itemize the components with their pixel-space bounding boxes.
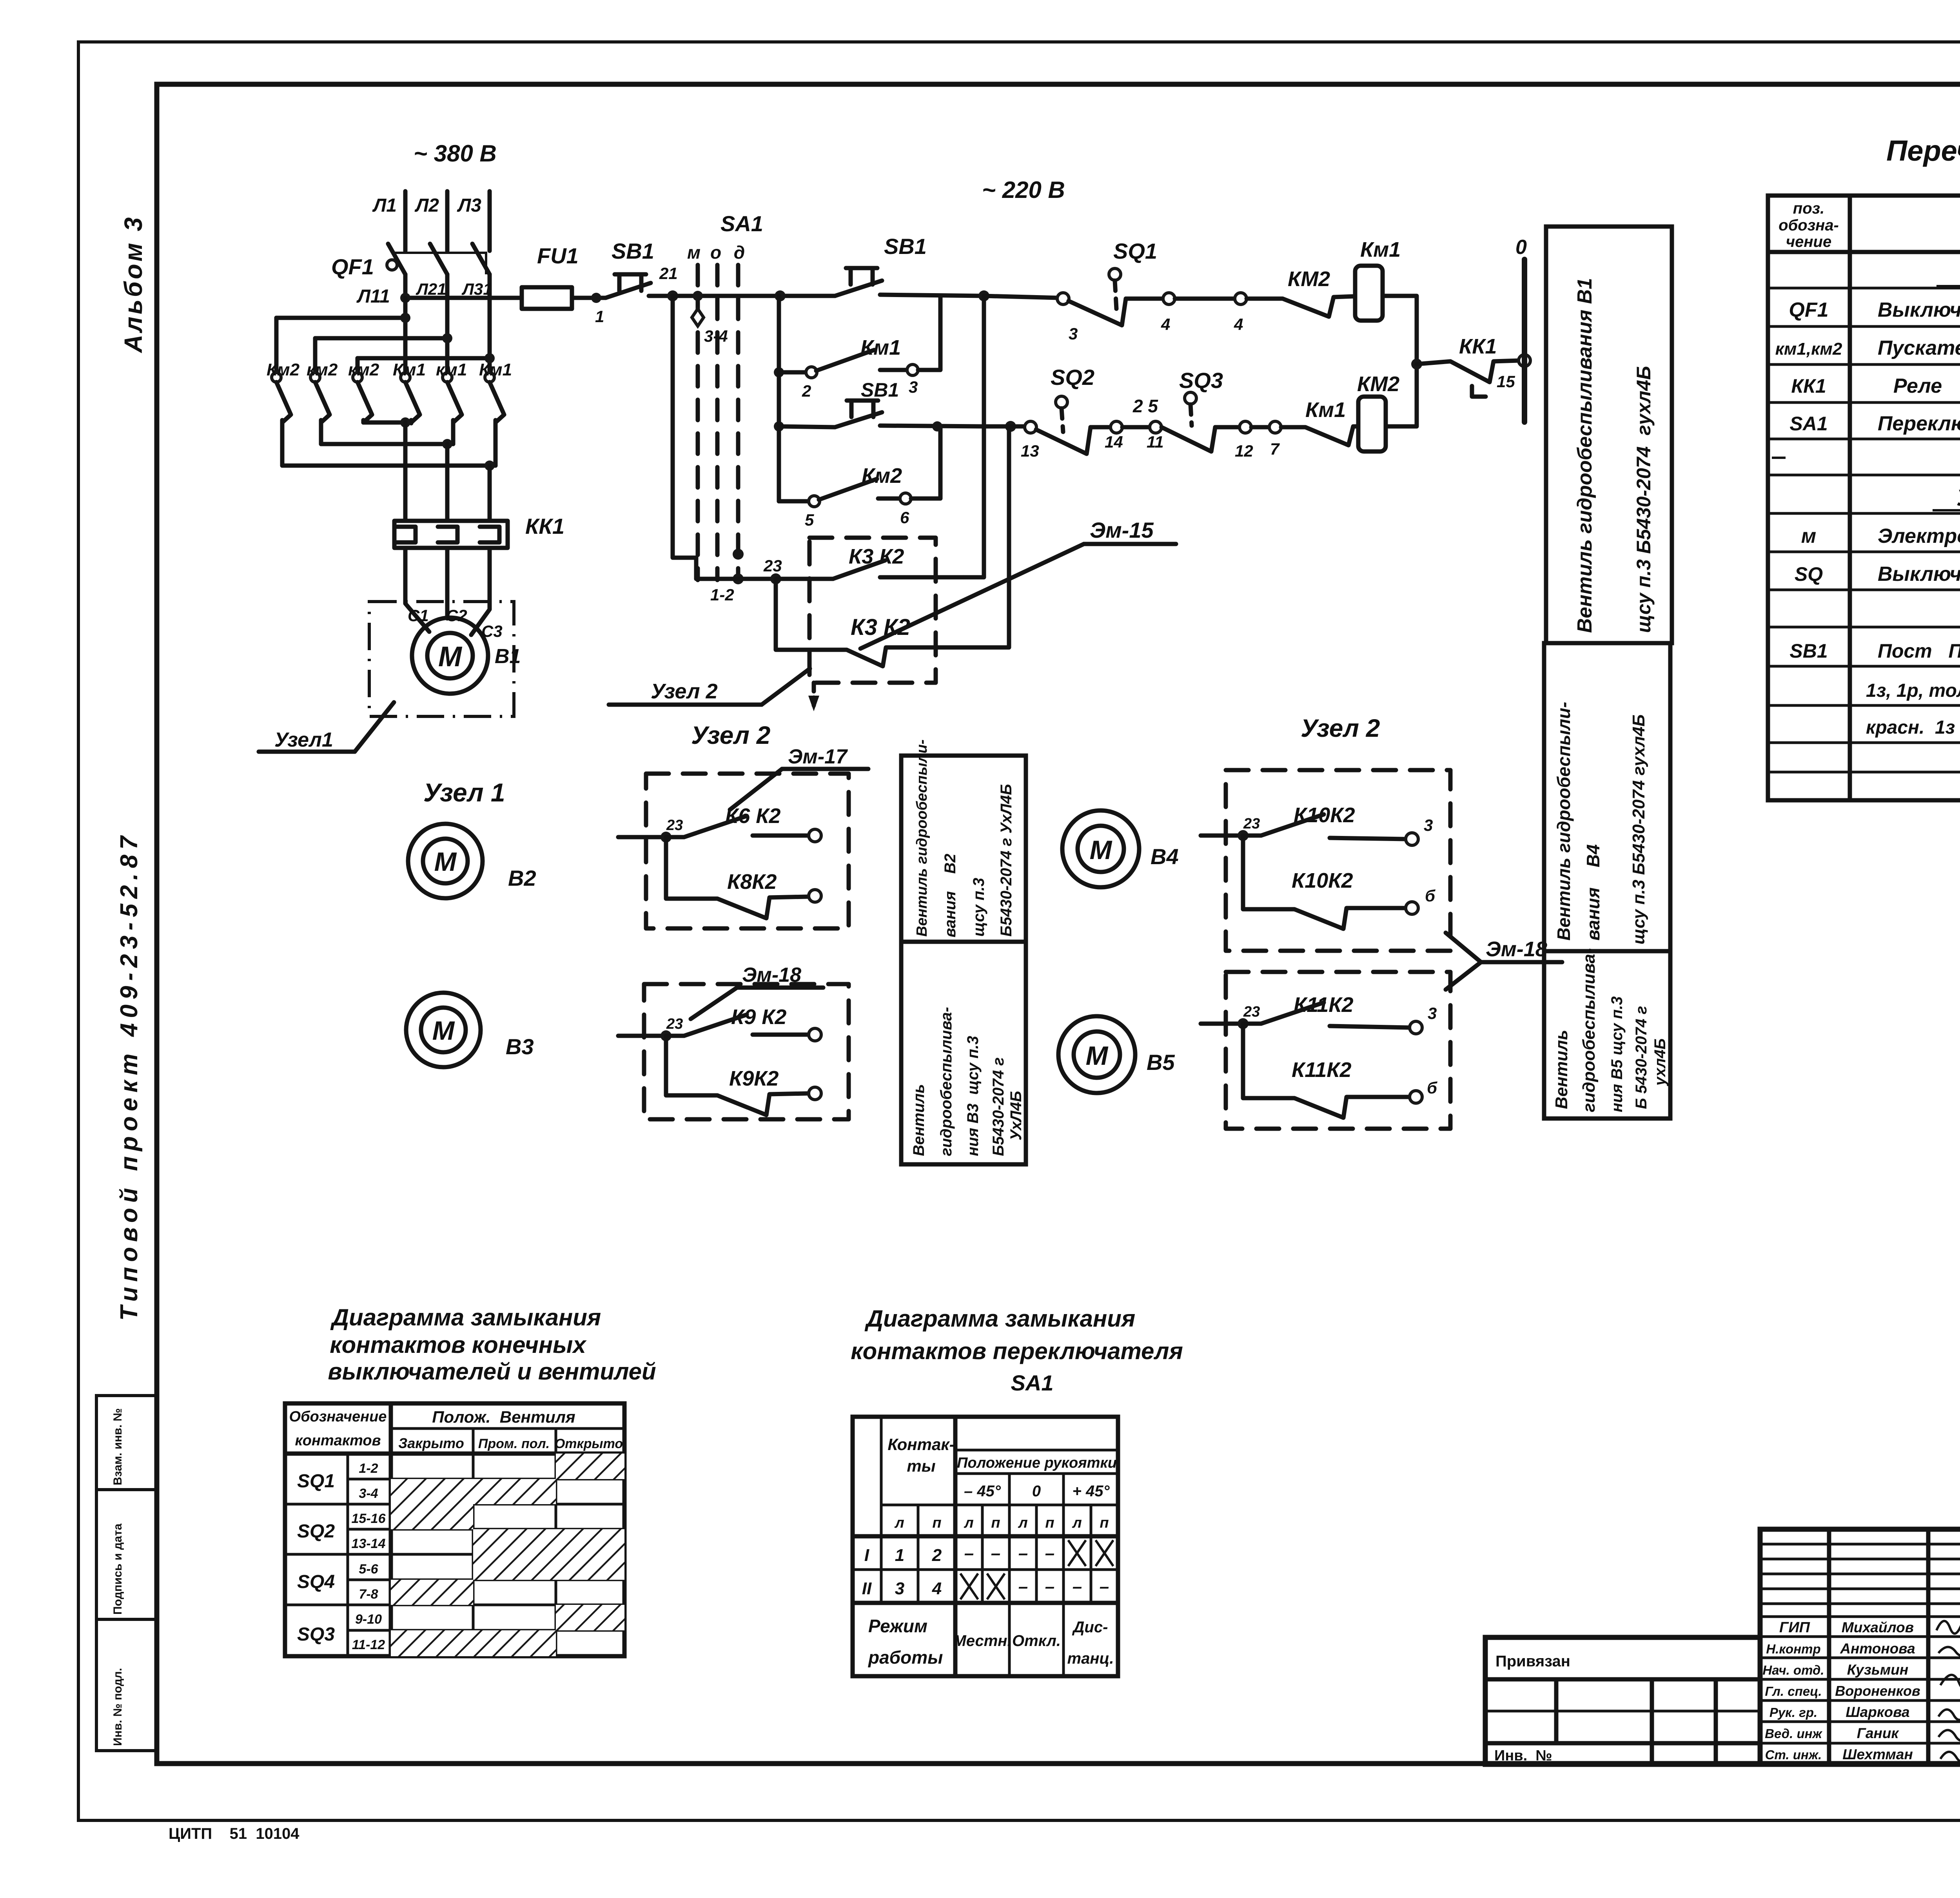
svg-text:SQ3: SQ3 <box>297 1624 335 1645</box>
row: panel heading <box>1936 261 1960 286</box>
svg-text:п: п <box>991 1515 1000 1531</box>
svg-text:QF1: QF1 <box>331 254 374 279</box>
lower jumper B <box>321 439 453 519</box>
svg-text:Л3: Л3 <box>457 195 481 216</box>
motor B1 <box>408 606 521 694</box>
svg-text:21: 21 <box>659 264 678 283</box>
svg-text:Узел 2: Узел 2 <box>691 721 770 749</box>
svg-text:КМ2: КМ2 <box>1357 372 1399 396</box>
limit switch SQ3 <box>1161 368 1281 460</box>
contact K3K2 (NC chevron) <box>776 426 1009 666</box>
valve B5 text box <box>1544 948 1670 1118</box>
svg-text:1-2: 1-2 <box>359 1461 378 1476</box>
svg-text:д: д <box>734 242 745 263</box>
svg-text:23: 23 <box>763 557 782 575</box>
empty row dash <box>1772 457 1786 459</box>
left margin stamp boxes <box>96 1396 157 1751</box>
svg-text:3-4: 3-4 <box>359 1486 378 1501</box>
svg-text:м: м <box>687 242 701 263</box>
contact K11K2 (NC) <box>1243 1024 1437 1118</box>
row SQ <box>1795 563 1960 586</box>
crossbar jumper B <box>315 333 452 372</box>
svg-text:Диаграмма замыкания: Диаграмма замыкания <box>330 1304 601 1331</box>
contact K10K2 (NO) <box>1201 803 1433 845</box>
svg-text:Кузьмин: Кузьмин <box>1847 1662 1908 1678</box>
svg-text:7-8: 7-8 <box>359 1587 378 1602</box>
svg-text:Антонова: Антонова <box>1840 1641 1915 1657</box>
svg-text:К11К2: К11К2 <box>1292 1058 1351 1082</box>
title block signatures column texts <box>1762 1619 1920 1762</box>
fuse FU1 <box>522 243 579 309</box>
svg-text:ния В3 щсу п.3: ния В3 щсу п.3 <box>964 1036 982 1156</box>
svg-text:КК1: КК1 <box>1791 375 1826 397</box>
svg-text:Б5430-2074 г УхЛ4Б: Б5430-2074 г УхЛ4Б <box>998 784 1015 937</box>
diagram table 1 grid <box>285 1403 624 1656</box>
svg-text:11: 11 <box>1147 433 1164 451</box>
svg-text:С3: С3 <box>481 622 503 640</box>
svg-text:Пост ПКЕ 222-3У2 толк. вер: Пост ПКЕ 222-3У2 толк. верхний <box>1878 640 1960 662</box>
crossbar jumper A <box>276 313 410 372</box>
wires KK1 to motor <box>405 548 490 635</box>
svg-text:Перечень элементов: Перечень элементов <box>1886 134 1960 167</box>
svg-text:Вентиль гидрообеспыливания В: Вентиль гидрообеспыливания В1 <box>1573 278 1596 633</box>
svg-text:Км1: Км1 <box>860 336 901 359</box>
svg-text:Привязан: Привязан <box>1495 1653 1570 1670</box>
svg-text:SQ2: SQ2 <box>1051 365 1094 390</box>
CONTROL-CIRCUIT <box>609 177 1672 711</box>
limit switch SQ2 <box>1021 365 1164 460</box>
pushbutton SB1 (start fwd) <box>835 234 984 296</box>
svg-text:–: – <box>1045 1577 1054 1596</box>
svg-text:SQ2: SQ2 <box>297 1521 335 1542</box>
phase line L3 <box>457 191 490 251</box>
svg-text:б: б <box>1427 1079 1437 1097</box>
thermal relay KK1 heaters <box>394 514 564 548</box>
svg-text:3: 3 <box>895 1579 904 1598</box>
svg-text:В1: В1 <box>495 645 521 668</box>
svg-text:В5: В5 <box>1147 1050 1175 1075</box>
diagram table 1 hatched cells <box>391 1454 624 1656</box>
svg-text:15: 15 <box>1497 372 1515 391</box>
svg-text:SB1: SB1 <box>612 239 654 263</box>
svg-text:Реле: Реле <box>1893 375 1942 397</box>
svg-text:Км1: Км1 <box>393 360 426 379</box>
row SA1 <box>1789 412 1960 435</box>
svg-text:л: л <box>894 1515 904 1531</box>
svg-text:1з, 1р, толк. средний, 1з, 1р,: 1з, 1р, толк. средний, 1з, 1р, толк. ниж… <box>1866 680 1960 701</box>
crossbar jumper C <box>358 353 495 372</box>
svg-text:11-12: 11-12 <box>352 1637 385 1652</box>
svg-text:КМ2: КМ2 <box>1288 267 1330 291</box>
svg-text:Км2: Км2 <box>267 360 300 379</box>
svg-text:ухл4Б: ухл4Б <box>1651 1039 1669 1086</box>
svg-text:обозна-: обозна- <box>1779 217 1839 234</box>
svg-text:Дис-: Дис- <box>1072 1619 1108 1636</box>
contactor contact KM1 phase c <box>479 360 512 466</box>
uzel 2 dashed box B <box>644 984 849 1119</box>
svg-text:Открыто: Открыто <box>555 1436 623 1451</box>
wire fuse to SB1 <box>572 293 606 326</box>
svg-text:Электродвигатель: Электродвигатель <box>1878 525 1960 547</box>
svg-text:SQ: SQ <box>1795 563 1823 585</box>
auxiliary contact KM2 (seal-in) <box>779 426 940 529</box>
contactor interlock contact KM2 (upper rail) <box>1247 267 1355 317</box>
svg-text:Режим: Режим <box>868 1616 927 1636</box>
svg-text:1: 1 <box>595 307 604 326</box>
svg-text:К6 К2: К6 К2 <box>725 804 780 828</box>
svg-text:К8К2: К8К2 <box>727 870 777 894</box>
svg-text:Км1: Км1 <box>1360 238 1401 261</box>
svg-text:23: 23 <box>1243 1004 1260 1020</box>
svg-text:Ст. инж.: Ст. инж. <box>1765 1748 1822 1762</box>
node 23 row wire <box>738 557 782 584</box>
svg-text:гидрообеспылива-: гидрообеспылива- <box>1579 948 1599 1112</box>
uzel 2 dashed box D <box>1226 972 1450 1129</box>
row KK1 <box>1791 375 1960 397</box>
svg-text:4: 4 <box>932 1579 942 1598</box>
wire bus to fuse <box>400 293 522 303</box>
svg-text:ЦИТП 51 10104: ЦИТП 51 10104 <box>169 1825 299 1842</box>
svg-text:п: п <box>1045 1515 1054 1531</box>
svg-text:SQ3: SQ3 <box>1179 368 1223 393</box>
neutral line 0 <box>1515 236 1527 422</box>
svg-text:чение: чение <box>1786 233 1831 250</box>
svg-text:Вентиль: Вентиль <box>1552 1030 1571 1109</box>
svg-text:Н.контр: Н.контр <box>1766 1642 1820 1656</box>
contact K10K2 (NC) <box>1243 836 1436 929</box>
svg-text:5: 5 <box>805 511 814 529</box>
svg-text:Вентиль гидрообеспыли-: Вентиль гидрообеспыли- <box>1553 702 1574 941</box>
svg-text:С1: С1 <box>408 606 429 625</box>
svg-text:Ганик: Ганик <box>1857 1725 1900 1741</box>
motor B5 <box>1058 1016 1175 1093</box>
svg-text:FU1: FU1 <box>537 243 579 268</box>
svg-text:К10К2: К10К2 <box>1292 869 1353 892</box>
element list table grid <box>1768 196 1960 800</box>
contact K9K2 (NO) <box>618 1005 821 1041</box>
valve B4 text box <box>1544 643 1670 951</box>
svg-text:вания В4: вания В4 <box>1583 844 1603 941</box>
svg-text:поз.: поз. <box>1793 200 1824 217</box>
svg-text:В2: В2 <box>508 866 536 890</box>
svg-text:Контак-: Контак- <box>887 1435 955 1454</box>
svg-text:Альбом 3: Альбом 3 <box>119 215 147 353</box>
svg-text:УхЛ4Б: УхЛ4Б <box>1007 1091 1025 1140</box>
contact 1-2 marker on SA1 <box>710 549 744 604</box>
svg-text:щсу п.3 Б5430-2074 гухл4Б: щсу п.3 Б5430-2074 гухл4Б <box>1629 714 1648 944</box>
svg-text:SА1: SА1 <box>1789 413 1828 435</box>
svg-text:SQ4: SQ4 <box>297 1572 335 1592</box>
svg-text:4: 4 <box>1161 315 1170 334</box>
svg-text:12: 12 <box>1235 442 1253 460</box>
svg-text:Пускатель: Пускатель <box>1878 337 1960 359</box>
phase line L2 <box>414 191 447 251</box>
svg-text:23: 23 <box>1243 816 1260 832</box>
leader label EM-17 <box>730 745 868 810</box>
svg-text:контактов: контактов <box>295 1432 381 1449</box>
uzel 2 dashed box C <box>1226 770 1450 951</box>
element list header <box>1779 200 1960 250</box>
svg-text:л: л <box>964 1515 974 1531</box>
motor B3 <box>406 993 534 1067</box>
svg-text:М: М <box>434 847 457 877</box>
svg-text:SА1: SА1 <box>1011 1370 1054 1395</box>
svg-text:–: – <box>1073 1577 1082 1596</box>
svg-text:23: 23 <box>666 1016 683 1032</box>
svg-text:SQ1: SQ1 <box>1113 239 1157 263</box>
lower jumper C <box>282 460 495 519</box>
leader label EM-18 (left) <box>691 964 823 1019</box>
svg-text:–: – <box>964 1544 974 1563</box>
svg-text:Вентиль гидрообеспыли-: Вентиль гидрообеспыли- <box>914 740 930 937</box>
auxiliary contact KM1 (seal-in) <box>779 296 940 400</box>
diagram table 2 title <box>851 1305 1183 1395</box>
svg-text:п: п <box>932 1515 941 1531</box>
svg-text:работы: работы <box>867 1647 943 1668</box>
contact 3-4 marker on SA1 <box>692 291 728 345</box>
uzel 2 dashed box (control) <box>809 538 936 683</box>
diagram table 1 title <box>328 1304 656 1385</box>
pushbutton SB1 (main) <box>606 239 673 298</box>
contactor contact KM2 phase a <box>267 360 300 466</box>
svg-text:Выключатель конечный: Выключатель конечный <box>1878 563 1960 586</box>
svg-text:Типовой проект 409-23-52.87: Типовой проект 409-23-52.87 <box>116 831 143 1321</box>
svg-text:Л21: Л21 <box>416 280 446 298</box>
svg-text:Узел1: Узел1 <box>274 729 333 751</box>
svg-text:выключателей и вентилей: выключателей и вентилей <box>328 1358 656 1385</box>
title block grid <box>1760 1529 1960 1764</box>
svg-text:л: л <box>1018 1515 1028 1531</box>
wire coil KM2 to junction <box>1386 364 1417 426</box>
svg-text:Откл.: Откл. <box>1012 1632 1061 1650</box>
diagram table 2 grid <box>853 1417 1118 1676</box>
TITLE-BLOCK <box>1485 1529 1960 1765</box>
svg-text:У механизма: У механизма <box>1956 485 1960 511</box>
svg-text:Переключатель ПКУ3-16с-0102У: Переключатель ПКУ3-16с-0102У3 <box>1878 412 1960 435</box>
svg-text:КК1: КК1 <box>1459 335 1497 358</box>
phase verticals to contacts <box>405 298 490 373</box>
svg-text:–: – <box>991 1544 1000 1563</box>
svg-text:2: 2 <box>932 1546 942 1565</box>
svg-text:В4: В4 <box>1151 844 1179 869</box>
svg-text:SQ1: SQ1 <box>297 1471 335 1492</box>
svg-text:Подпись и дата: Подпись и дата <box>111 1523 124 1615</box>
svg-text:Инв. №: Инв. № <box>1494 1748 1552 1764</box>
contactor interlock contact KM1 (lower rail) <box>1281 398 1358 445</box>
svg-text:км2: км2 <box>348 360 379 379</box>
uzel 1 leader label <box>259 702 394 752</box>
svg-text:I: I <box>864 1546 869 1565</box>
svg-text:Км1: Км1 <box>1305 398 1346 422</box>
svg-text:~ 220 В: ~ 220 В <box>982 177 1065 203</box>
svg-text:танц.: танц. <box>1067 1650 1114 1667</box>
svg-text:23: 23 <box>666 817 683 834</box>
svg-text:б: б <box>1425 886 1436 905</box>
svg-text:Положение рукоятки: Положение рукоятки <box>957 1455 1117 1471</box>
svg-text:щсу п.3 Б5430-2074 гухл4Б: щсу п.3 Б5430-2074 гухл4Б <box>1633 366 1655 633</box>
valve B3 text box <box>901 942 1026 1164</box>
DIAGRAM-TABLES <box>285 1304 1183 1676</box>
valve B2 text box <box>901 740 1026 942</box>
leader label EM-15 <box>860 518 1176 649</box>
svg-text:5-6: 5-6 <box>359 1562 378 1577</box>
svg-text:Инв. № подл.: Инв. № подл. <box>111 1668 124 1746</box>
svg-text:Км1: Км1 <box>479 360 512 379</box>
contact K11K2 (NO) <box>1201 993 1437 1034</box>
svg-text:В3: В3 <box>506 1034 534 1059</box>
wire upper rail to SQ1 <box>978 290 1058 301</box>
svg-text:Узел 1: Узел 1 <box>423 778 505 807</box>
svg-text:SB1: SB1 <box>884 234 927 259</box>
svg-text:вания В2: вания В2 <box>942 854 959 937</box>
svg-text:С2: С2 <box>446 606 467 625</box>
svg-text:– 45°: – 45° <box>964 1483 1001 1500</box>
svg-text:ГИП: ГИП <box>1779 1619 1810 1636</box>
row SB1 <box>1789 640 1960 662</box>
svg-text:Пром. пол.: Пром. пол. <box>478 1436 550 1451</box>
svg-text:м: м <box>1801 525 1816 547</box>
svg-text:Рук. гр.: Рук. гр. <box>1769 1705 1817 1720</box>
svg-text:QF1: QF1 <box>1789 299 1828 321</box>
svg-text:гидрообеспылива-: гидрообеспылива- <box>938 1007 955 1156</box>
svg-text:красн. 1з , 1р: красн. 1з , 1р <box>1866 717 1960 738</box>
svg-text:~ 380 В: ~ 380 В <box>414 140 497 167</box>
svg-text:Узел 2: Узел 2 <box>1301 714 1380 742</box>
svg-text:контактов конечных: контактов конечных <box>330 1332 587 1358</box>
arrow below box <box>808 683 819 711</box>
svg-text:7: 7 <box>1270 440 1280 458</box>
row KM1 KM2 <box>1775 337 1960 359</box>
svg-text:Л2: Л2 <box>414 195 439 216</box>
svg-text:SB1: SB1 <box>861 379 899 401</box>
svg-text:щсу п.3: щсу п.3 <box>970 878 987 937</box>
svg-text:1: 1 <box>895 1546 904 1565</box>
svg-text:Вороненков: Вороненков <box>1835 1683 1920 1699</box>
pushbutton SB1 (start rev) <box>779 379 984 427</box>
svg-text:Полож. Вентиля: Полож. Вентиля <box>432 1408 575 1426</box>
wire upper rail <box>775 290 835 301</box>
svg-text:о: о <box>710 242 721 263</box>
svg-text:км1,км2: км1,км2 <box>1775 339 1842 359</box>
svg-text:ты: ты <box>907 1457 935 1475</box>
svg-text:Эм-17: Эм-17 <box>788 745 848 768</box>
svg-text:Шехтман: Шехтман <box>1842 1746 1913 1762</box>
contact K9K2 (NC) <box>666 1036 821 1115</box>
svg-text:14: 14 <box>1105 433 1123 451</box>
svg-text:–: – <box>1045 1544 1054 1563</box>
svg-text:+ 45°: + 45° <box>1073 1483 1110 1500</box>
svg-text:SB1: SB1 <box>1789 640 1828 662</box>
svg-text:Выключатель: Выключатель <box>1878 299 1960 321</box>
svg-text:3: 3 <box>1069 324 1078 343</box>
uzel 2 dashed box A <box>646 774 849 928</box>
contact K6K2 <box>618 804 821 843</box>
circuit breaker QF1 <box>331 244 490 298</box>
svg-text:Закрыто: Закрыто <box>398 1435 464 1451</box>
svg-text:КК1: КК1 <box>525 514 564 538</box>
limit switch SQ1 <box>1057 239 1247 343</box>
switch SA1 dashed contact lines <box>687 211 763 580</box>
contactor contact KM1 phase b <box>436 360 467 444</box>
lower jumper A <box>363 417 411 519</box>
svg-text:–: – <box>1018 1544 1028 1563</box>
svg-text:2 5: 2 5 <box>1132 396 1158 416</box>
svg-text:2: 2 <box>802 382 811 400</box>
row QF1 <box>1789 299 1960 321</box>
svg-text:3-4: 3-4 <box>704 327 728 345</box>
svg-text:6: 6 <box>900 508 909 527</box>
svg-text:–: – <box>1100 1577 1109 1596</box>
svg-text:3: 3 <box>1428 1004 1437 1022</box>
svg-text:Вентиль: Вентиль <box>910 1084 927 1156</box>
contactor coil KM1 <box>1355 238 1401 321</box>
contactor contact KM2 phase c <box>348 360 379 422</box>
left branch vertical <box>774 296 784 501</box>
svg-text:М: М <box>432 1016 455 1046</box>
svg-text:Узел 2: Узел 2 <box>651 680 718 703</box>
svg-text:–: – <box>1018 1577 1028 1596</box>
diagram table 1 text <box>289 1408 623 1652</box>
svg-text:Взам. инв. №: Взам. инв. № <box>111 1408 124 1485</box>
svg-text:Михайлов: Михайлов <box>1842 1619 1914 1635</box>
svg-text:Б 5430-2074 г: Б 5430-2074 г <box>1633 1006 1650 1109</box>
svg-text:ния В5 щсу п.3: ния В5 щсу п.3 <box>1608 996 1626 1112</box>
motor B2 <box>408 824 536 898</box>
svg-text:км2: км2 <box>307 360 338 379</box>
phase line L1 <box>372 191 405 251</box>
node 1 dash-dot boundary box <box>369 602 514 716</box>
svg-text:контактов переключателя: контактов переключателя <box>851 1338 1183 1364</box>
svg-text:4: 4 <box>1234 315 1243 334</box>
svg-text:М: М <box>438 641 463 673</box>
svg-text:км1: км1 <box>436 360 467 379</box>
svg-text:1-2: 1-2 <box>710 586 734 604</box>
svg-text:SA1: SA1 <box>720 211 763 236</box>
contact K3K2 (NO) <box>776 296 984 579</box>
svg-text:Л11: Л11 <box>356 286 390 307</box>
PERECHEN-TABLE <box>1768 134 1960 800</box>
wire drop from node 21 to 1-2 row <box>673 296 738 579</box>
svg-text:13: 13 <box>1021 442 1039 460</box>
svg-text:Нач. отд.: Нач. отд. <box>1762 1663 1824 1677</box>
svg-text:Вед. инж: Вед. инж <box>1765 1726 1822 1741</box>
NODES-SECTION <box>406 643 1670 1164</box>
uzel 2 leader label <box>609 669 810 705</box>
contactor contact KM1 phase a <box>393 360 426 423</box>
valve B1 text box <box>1546 227 1672 643</box>
svg-text:М: М <box>1090 835 1112 865</box>
svg-text:15-16: 15-16 <box>352 1511 386 1526</box>
wire lower rail <box>932 421 1026 432</box>
svg-text:3: 3 <box>1424 816 1433 834</box>
contactor contact KM2 phase b <box>307 360 338 444</box>
svg-text:л: л <box>1072 1515 1082 1531</box>
svg-text:Шаркова: Шаркова <box>1846 1704 1909 1720</box>
attachment box <box>1485 1637 1760 1764</box>
diagram table 2 text <box>862 1435 1117 1668</box>
svg-text:Эм-18: Эм-18 <box>1486 937 1547 961</box>
svg-text:К9К2: К9К2 <box>729 1067 779 1090</box>
svg-text:Обозначение: Обозначение <box>289 1409 387 1425</box>
contactor coil KM2 <box>1357 372 1399 451</box>
svg-text:0: 0 <box>1515 236 1527 259</box>
contact K8K2 <box>666 837 821 918</box>
wire coil KM1 to junction <box>1383 296 1417 364</box>
row: mechanism heading <box>1933 485 1960 511</box>
svg-text:II: II <box>862 1579 872 1598</box>
leader label EM-18 (right) <box>1446 933 1562 990</box>
thermal relay contact KK1 <box>1411 335 1530 397</box>
